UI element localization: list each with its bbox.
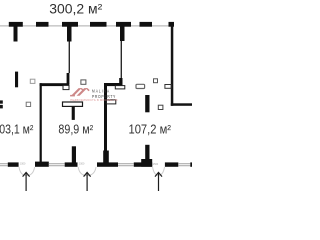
- thick partition upper right divider: [119, 78, 122, 86]
- outlet rect right of wall: [107, 100, 116, 104]
- door 1 arcs: [19, 167, 27, 176]
- pillar right lower dash: [145, 145, 149, 160]
- wide outlet rect room 107: [136, 84, 145, 88]
- bottom wall window 2: [49, 162, 65, 165]
- svg-text:MALINA: MALINA: [92, 88, 110, 93]
- horizontal wall room 103: [40, 83, 70, 86]
- svg-text:103,1 м²: 103,1 м²: [0, 123, 33, 137]
- bottom wall dash 3: [97, 162, 118, 166]
- top wall dash 3: [62, 22, 78, 27]
- bottom wall window 1: [0, 162, 8, 165]
- top wall dash 4: [90, 22, 107, 27]
- bottom wall window 3: [118, 162, 134, 165]
- right exterior wall: [171, 25, 174, 106]
- top wall dash 6: [140, 22, 153, 27]
- small square room 107 lower: [158, 105, 163, 109]
- right wall horizontal to edge: [171, 103, 192, 106]
- door marker white rect on wall 103: [63, 85, 69, 89]
- bottom wall dash 4: [134, 162, 152, 166]
- bottom wall dash 6: [190, 162, 192, 166]
- top wall corner dash: [169, 22, 175, 27]
- top wall dash 2: [36, 22, 49, 27]
- outlet rect under jog: [115, 86, 125, 89]
- svg-text:НЕДВИЖИМОСТЬ В МОСКВЕ РФ: НЕДВИЖИМОСТЬ В МОСКВЕ РФ: [70, 99, 118, 102]
- bottom wall dash 1: [8, 162, 19, 166]
- thin partition line right divider: [121, 41, 122, 79]
- pillar left: [15, 72, 18, 88]
- horizontal jog wall: [104, 83, 123, 86]
- thin partition line left divider: [69, 42, 70, 74]
- watermark logo chevron 1: [71, 88, 82, 96]
- bottom wall window 4: [178, 162, 190, 165]
- door 3 arcs: [153, 167, 159, 175]
- watermark logo leg 2: [86, 88, 90, 91]
- bottom wall dash 5: [165, 162, 178, 166]
- top wall dash 5: [116, 22, 131, 27]
- small square room 103 lower: [26, 102, 30, 106]
- watermark logo leg 1: [80, 88, 84, 91]
- wall foot bottom x105: [103, 151, 109, 165]
- column stub top-middle: [67, 27, 72, 42]
- svg-text:PROPERTY: PROPERTY: [92, 94, 116, 99]
- radiator stem: [72, 106, 75, 120]
- bottom wall dash 2: [65, 162, 78, 166]
- top wall dash 1: [9, 22, 23, 27]
- svg-text:1500: 1500: [20, 162, 26, 165]
- arrow entrance 1: [23, 172, 30, 176]
- svg-text:89,9 м²: 89,9 м²: [58, 123, 93, 137]
- column stub top-right: [120, 27, 125, 42]
- watermark logo chevron 2: [77, 88, 88, 96]
- small square room 103 upper: [30, 79, 35, 83]
- top wall thin window line: [0, 25, 174, 27]
- wall foot bottom x146: [141, 159, 152, 167]
- column stub top-left: [14, 27, 18, 42]
- bottom wall stem x74: [72, 146, 76, 163]
- svg-text:300,2 м²: 300,2 м²: [49, 0, 102, 16]
- watermark logo tick: [70, 95, 75, 97]
- svg-text:1500: 1500: [79, 163, 85, 166]
- svg-text:1500: 1500: [153, 163, 159, 166]
- door 2 arcs: [78, 167, 87, 176]
- left edge glyph: [0, 100, 3, 103]
- wall rect on right wall: [165, 85, 171, 89]
- svg-text:107,2 м²: 107,2 м²: [129, 123, 172, 137]
- vertical wall divider 89-107: [104, 83, 107, 164]
- small square room 107: [154, 79, 158, 83]
- arrow entrance 3: [155, 172, 162, 176]
- vertical wall room 103: [40, 83, 42, 163]
- arrow entrance 2: [84, 172, 91, 176]
- wall foot bottom x42: [35, 162, 49, 167]
- radiator T symbol room 89: [63, 102, 83, 106]
- thick partition upper left divider: [67, 73, 70, 85]
- pillar right upper dash: [145, 95, 149, 112]
- small square room 89: [81, 80, 86, 84]
